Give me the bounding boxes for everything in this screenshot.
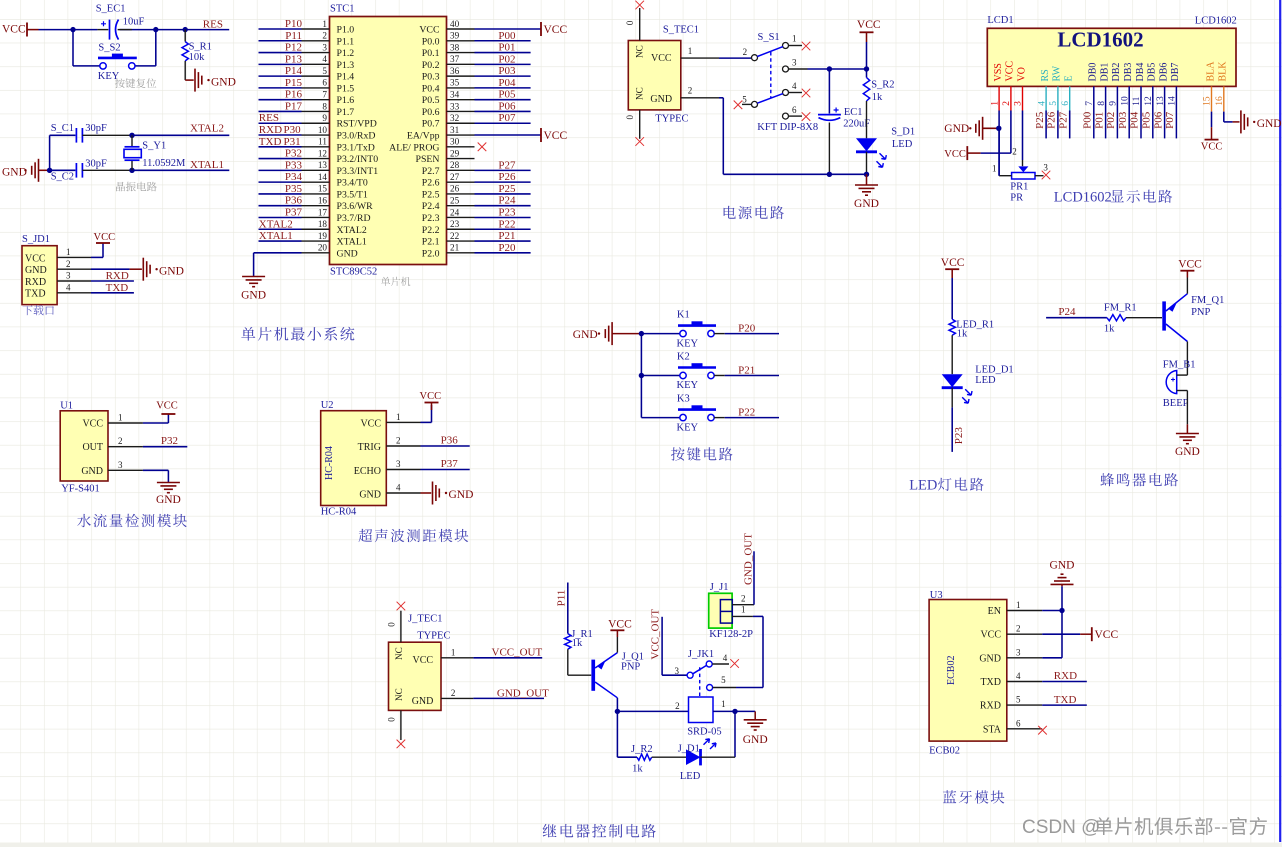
svg-text:2: 2 [118,436,123,446]
svg-text:P3.1/TxD: P3.1/TxD [337,142,375,153]
svg-text:BEEP: BEEP [1163,398,1189,409]
svg-text:6: 6 [322,78,327,88]
wire reset branch down to key [72,30,74,66]
svg-text:S_JD1: S_JD1 [22,234,50,245]
svg-text:P3.6/WR: P3.6/WR [337,201,374,212]
svg-text:YF-S401: YF-S401 [61,483,100,494]
ground (MCU) [242,276,265,278]
svg-text:U1: U1 [60,400,73,411]
top pin 0 with X [639,8,641,41]
svg-text:P31: P31 [284,136,301,148]
svg-text:P2.1: P2.1 [422,237,440,248]
svg-text:NC: NC [394,647,404,660]
title 超声波测距模块 [359,529,469,542]
svg-text:STC1: STC1 [330,4,355,15]
wire VCC to LED_R1 [951,278,953,319]
svg-text:4: 4 [322,54,327,64]
svg-text:P21: P21 [738,364,755,376]
pin 2 OUT [108,446,143,448]
wire J_R2 to J_D1 [652,756,686,758]
svg-text:6: 6 [792,105,797,115]
svg-text:XTAL2: XTAL2 [337,225,367,236]
svg-text:P3.3/INT1: P3.3/INT1 [337,166,379,177]
capacitor S_EC1 10uF [97,29,108,31]
svg-text:2: 2 [1012,146,1017,156]
pin5 wire to J_J1 pin1 [713,687,736,689]
buzzer FM_B1 BEEP [1166,371,1177,394]
svg-text:LCD1602: LCD1602 [1195,15,1237,26]
switch K1 KEY [641,333,679,335]
svg-text:2: 2 [322,31,327,41]
svg-text:P04: P04 [1129,111,1141,129]
pin4 TXD wire RXD label [1042,681,1087,683]
svg-text:1: 1 [721,699,726,709]
svg-text:DB5: DB5 [1147,63,1158,82]
svg-text:GND: GND [1175,446,1200,458]
ground (U2) [432,482,434,505]
svg-text:NC: NC [635,45,645,58]
power port VCC (power circuit) [860,31,874,33]
svg-text:P26: P26 [498,171,516,183]
LCD DB4 wire [1140,86,1142,138]
svg-text:13: 13 [318,160,328,170]
svg-text:RS: RS [1040,69,1051,81]
svg-text:VCC: VCC [651,53,672,64]
pin 3 ECHO [386,469,420,471]
svg-text:P33: P33 [285,159,303,171]
LCD pin1 VSS wire [998,86,1000,110]
svg-text:8: 8 [322,101,327,111]
svg-text:2: 2 [688,86,693,96]
svg-text:VCC: VCC [1178,259,1202,271]
svg-text:P06: P06 [1152,111,1164,129]
svg-text:P26: P26 [1046,111,1058,129]
svg-text:P25: P25 [498,183,516,195]
node junction S_R2 top [864,66,869,71]
svg-text:P2.7: P2.7 [422,166,440,177]
resistor FM_R1 1k [1107,315,1126,321]
svg-text:P2.0: P2.0 [422,248,440,259]
pin4 stub X [789,92,802,94]
ground (relay) [735,710,755,712]
svg-text:P2.2: P2.2 [422,225,440,236]
LED S_D1 [866,101,868,138]
svg-text:J_JK1: J_JK1 [688,649,714,660]
LCD pin2 VCC wire [1010,86,1012,110]
pin1 stub X [789,45,802,47]
svg-text:S_S1: S_S1 [758,32,780,43]
LCD RS wire [1045,86,1047,110]
transistor J_Q1 PNP [591,660,595,691]
svg-text:VCC: VCC [1095,629,1119,641]
svg-text:P13: P13 [285,53,303,65]
svg-text:GND_OUT: GND_OUT [497,687,549,699]
ground (power circuit) [866,174,868,184]
svg-text:DB7: DB7 [1170,63,1181,82]
svg-text:1: 1 [1016,600,1021,610]
svg-text:E: E [1064,75,1075,81]
svg-text:P2.5: P2.5 [422,189,440,200]
wire buzzer to gnd [1186,391,1188,425]
svg-text:GND: GND [2,166,27,178]
IC STC1 STC89C52 body [330,17,447,265]
svg-text:P3.2/INT0: P3.2/INT0 [337,154,379,165]
svg-text:NC: NC [635,87,645,100]
svg-text:GND: GND [412,696,434,707]
svg-text:P1.3: P1.3 [337,60,355,71]
svg-text:P04: P04 [498,77,516,89]
svg-text:31: 31 [450,125,460,135]
svg-text:2: 2 [743,47,748,57]
svg-text:10k: 10k [189,52,206,63]
svg-text:VCC: VCC [156,401,178,412]
node junction relay left [615,709,620,714]
svg-text:21: 21 [450,243,460,253]
svg-text:VCC_OUT: VCC_OUT [649,609,661,660]
svg-text:GND: GND [573,329,598,341]
LCD DB0 wire [1093,86,1095,138]
pin 4 GND (U2) [386,492,420,494]
svg-text:7: 7 [322,89,327,99]
power port VCC (pin 31) [540,128,542,142]
wire S_R1 to GND [184,61,186,80]
svg-text:3: 3 [66,271,71,281]
svg-text:30: 30 [450,137,460,147]
title 水流量检测模块 [77,514,187,528]
svg-text:GND_OUT: GND_OUT [742,533,754,585]
wire junction to relay coil [617,710,688,712]
svg-text:KEY: KEY [677,422,699,433]
svg-text:LED: LED [680,771,701,782]
svg-text:P15: P15 [285,77,303,89]
svg-text:P37: P37 [441,458,459,470]
svg-text:P3.0/RxD: P3.0/RxD [337,131,376,142]
svg-text:1k: 1k [572,638,583,649]
wire pin20 GND [253,253,255,276]
svg-text:VO: VO [1016,67,1027,81]
svg-text:RXD: RXD [106,270,129,282]
svg-text:DB1: DB1 [1099,63,1110,82]
svg-text:5: 5 [742,95,747,105]
svg-text:P23: P23 [953,427,965,445]
wire key right side up [135,65,156,67]
gnd rail [723,173,866,175]
svg-text:RXD: RXD [25,277,46,288]
title 继电器控制电路 [543,824,656,838]
svg-text:LCD1: LCD1 [987,15,1013,26]
svg-text:0: 0 [625,20,635,25]
node junction K1 [639,331,644,336]
svg-text:VCC: VCC [360,419,381,430]
svg-text:NC: NC [394,688,404,701]
LED LED_D1 [942,374,963,387]
svg-text:GND: GND [241,290,266,302]
svg-text:4: 4 [396,483,401,493]
LCD pin16 BLK wire to GND [1223,86,1225,111]
svg-text:3: 3 [675,666,680,676]
svg-text:S_EC1: S_EC1 [96,4,126,15]
svg-text:P00: P00 [1082,111,1094,129]
svg-text:FM_B1: FM_B1 [1163,359,1196,370]
svg-text:FM_Q1: FM_Q1 [1191,295,1224,306]
svg-text:30pF: 30pF [85,159,107,170]
svg-text:P05: P05 [498,89,516,101]
svg-text:1: 1 [451,648,456,658]
svg-text:20: 20 [318,243,328,253]
power port VCC (U1) [161,413,175,415]
capacitor EC1 220uF [828,69,830,114]
svg-text:J_R2: J_R2 [631,744,653,755]
svg-text:5: 5 [322,66,327,76]
svg-text:LED: LED [975,375,996,386]
svg-text:BLK: BLK [1218,61,1229,82]
svg-text:GND: GND [650,94,672,105]
svg-text:0: 0 [625,115,635,120]
wire P24 to FM_R1 [1046,317,1107,319]
svg-text:PR1: PR1 [1010,182,1028,193]
svg-text:P3.4/T0: P3.4/T0 [337,178,368,189]
svg-text:P0.4: P0.4 [422,83,440,94]
svg-text:2: 2 [741,593,746,603]
pin6 STA X [1038,726,1047,735]
svg-text:VCC: VCC [544,24,568,36]
wire K3 to P22 [714,417,725,419]
svg-text:VCC: VCC [1005,61,1016,82]
svg-text:KFT DIP-8X8: KFT DIP-8X8 [757,122,818,133]
ground (LCD right) [1240,110,1242,133]
J_TEC1 top pin 0 X [400,611,402,643]
power port VCC (buzzer) [1186,278,1188,294]
svg-text:VCC: VCC [2,24,26,36]
svg-text:P03: P03 [1117,111,1129,129]
J_J1 pin1 stub [732,615,753,617]
pin 2 GND wire down to rail [681,97,719,99]
svg-text:33: 33 [450,101,460,111]
transistor FM_Q1 PNP [1162,301,1166,330]
relay drive loop: down legs [616,711,618,757]
svg-text:BLA: BLA [1205,61,1216,82]
svg-text:1: 1 [992,163,997,173]
svg-text:HC-R04: HC-R04 [321,507,357,518]
svg-text:P00: P00 [498,30,516,42]
svg-text:GND: GND [979,653,1001,664]
svg-text:GND: GND [156,494,181,506]
svg-text:P20: P20 [498,242,516,254]
ground (download) [142,258,144,281]
svg-text:J_TEC1: J_TEC1 [408,614,442,625]
pin 2 GND wire [57,268,91,270]
pin2 VCC wire [1042,633,1080,635]
svg-text:P3.7/RD: P3.7/RD [337,213,371,224]
LCD DB2 wire [1116,86,1118,138]
svg-text:3: 3 [1043,163,1048,173]
svg-text:GND: GND [1050,560,1075,572]
svg-text:TYPEC: TYPEC [655,113,688,124]
pin6 stub X [789,115,802,117]
svg-text:P17: P17 [285,100,303,112]
svg-text:P0.2: P0.2 [422,60,440,71]
svg-text:DB4: DB4 [1135,63,1146,82]
svg-text:1k: 1k [872,92,883,103]
svg-text:RXD: RXD [259,124,282,136]
svg-text:22: 22 [450,231,460,241]
svg-text:4: 4 [1016,671,1021,681]
svg-text:GND: GND [25,265,47,276]
svg-text:P06: P06 [498,100,516,112]
svg-text:TXD: TXD [259,136,282,148]
LCD pin3 VO wire [1022,86,1024,110]
svg-text:DB6: DB6 [1158,63,1169,82]
svg-text:P0.5: P0.5 [422,95,440,106]
svg-text:STC89C52: STC89C52 [330,267,377,278]
crystal S_Y1 11.0592M [131,135,133,147]
svg-text:J_D1: J_D1 [678,743,700,754]
svg-text:P01: P01 [1093,112,1105,129]
svg-text:19: 19 [318,231,328,241]
resistor J_R2 1k [637,754,652,760]
wire XTAL1 [132,169,229,171]
svg-text:VCC: VCC [544,130,568,142]
pin 3 RXD wire [57,280,91,282]
svg-text:TXD: TXD [1054,694,1077,706]
power port VCC (relay) [616,637,618,653]
J_J1 pin2 wire [732,604,754,606]
svg-text:VCC: VCC [944,149,966,160]
note 晶振电路 [116,182,157,192]
wire J_R1 to base [567,649,569,675]
capacitor S_C2 30pF [75,163,77,178]
svg-text:P21: P21 [498,230,515,242]
svg-text:EC1: EC1 [844,107,863,118]
wire VCC to RES node [39,29,98,31]
svg-text:PNP: PNP [1191,307,1210,318]
svg-text:23: 23 [450,219,460,229]
svg-text:S_C1: S_C1 [51,123,74,134]
title 单片机最小系统 [241,327,354,341]
power port VCC (U2) [425,402,439,404]
svg-text:2: 2 [66,259,71,269]
LCD DB1 wire [1105,86,1107,138]
svg-text:16: 16 [318,196,328,206]
svg-text:P20: P20 [738,322,756,334]
svg-text:P36: P36 [441,435,459,447]
wire K2 to P21 [714,375,725,377]
svg-text:VCC: VCC [941,257,965,269]
svg-text:P2.6: P2.6 [422,178,440,189]
svg-text:GND: GND [159,265,184,277]
svg-text:S_C2: S_C2 [51,171,74,182]
wire LED_D1 to P23 [951,388,953,408]
svg-text:P1.0: P1.0 [337,25,355,36]
svg-text:TYPEC: TYPEC [417,631,450,642]
svg-text:P27: P27 [498,159,516,171]
svg-text:38: 38 [450,42,460,52]
svg-text:P22: P22 [498,218,515,230]
svg-text:P07: P07 [1164,111,1176,129]
svg-text:28: 28 [450,160,460,170]
svg-text:3: 3 [1016,647,1021,657]
svg-text:2: 2 [1016,624,1021,634]
svg-text:SRD-05: SRD-05 [687,727,721,738]
svg-text:24: 24 [450,207,460,217]
svg-text:1: 1 [688,46,693,56]
wire collector to buzzer [1186,342,1188,376]
svg-text:GND: GND [944,123,969,135]
svg-text:P12: P12 [285,42,302,54]
svg-text:P05: P05 [1141,111,1153,129]
svg-text:25: 25 [450,196,460,206]
title 下载口 [23,305,54,315]
svg-text:P30: P30 [284,124,302,136]
svg-text:PR: PR [1010,193,1023,204]
svg-text:K3: K3 [677,394,690,405]
svg-text:12: 12 [318,148,328,158]
svg-text:KEY: KEY [98,71,120,82]
svg-text:1: 1 [322,19,327,29]
LCD E wire [1069,86,1071,110]
svg-text:EA/Vpp: EA/Vpp [407,131,440,142]
wire gnd to caps [49,135,51,170]
pin 2 TRIG [386,445,420,447]
svg-text:OUT: OUT [82,442,103,453]
svg-text:GND: GND [211,76,236,88]
svg-text:3: 3 [322,42,327,52]
svg-text:ALE/ PROG: ALE/ PROG [389,142,439,153]
svg-text:P27: P27 [1057,111,1069,129]
svg-text:P1.7: P1.7 [337,107,355,118]
svg-text:VCC: VCC [608,619,632,631]
svg-text:P1.5: P1.5 [337,83,355,94]
ground (U1) [157,482,180,484]
svg-text:35: 35 [450,78,460,88]
svg-text:TXD: TXD [106,282,129,294]
LCD DB3 wire [1128,86,1130,138]
svg-text:P24: P24 [1058,306,1076,318]
svg-text:VCC: VCC [82,419,103,430]
svg-text:VCC: VCC [94,232,116,243]
svg-text:LCD1602: LCD1602 [1057,28,1143,52]
svg-text:P0.3: P0.3 [422,72,440,83]
svg-text:0: 0 [386,622,396,627]
resistor J_R1 1k [565,634,571,650]
svg-text:P23: P23 [498,206,516,218]
svg-text:P36: P36 [285,195,303,207]
collector wire to junction [616,698,618,712]
node junction relay right [732,709,737,714]
wire VCC_OUT to switch pin3 [661,617,663,675]
node junction left of S_EC1 [70,27,75,32]
switch S_S2 KEY [98,57,137,60]
svg-text:1k: 1k [632,764,643,775]
svg-text:HC-R04: HC-R04 [324,446,335,480]
svg-text:RXD: RXD [1054,670,1077,682]
svg-text:S_S2: S_S2 [98,43,120,54]
svg-text:DB0: DB0 [1088,63,1099,82]
svg-text:2: 2 [451,688,456,698]
svg-text:P03: P03 [498,65,516,77]
svg-text:U2: U2 [321,400,334,411]
svg-text:P25: P25 [1034,111,1046,129]
title 按键电路 [671,447,733,461]
svg-text:5: 5 [1016,695,1021,705]
svg-text:TXD: TXD [25,289,46,300]
LCD RW wire [1057,86,1059,110]
svg-text:DB3: DB3 [1123,63,1134,82]
wire LED_R1 to LED_D1 [951,335,953,374]
svg-text:GND: GND [743,734,768,746]
pin 1 VCC wire to switch [681,57,719,59]
svg-text:11.0592M: 11.0592M [142,158,186,169]
